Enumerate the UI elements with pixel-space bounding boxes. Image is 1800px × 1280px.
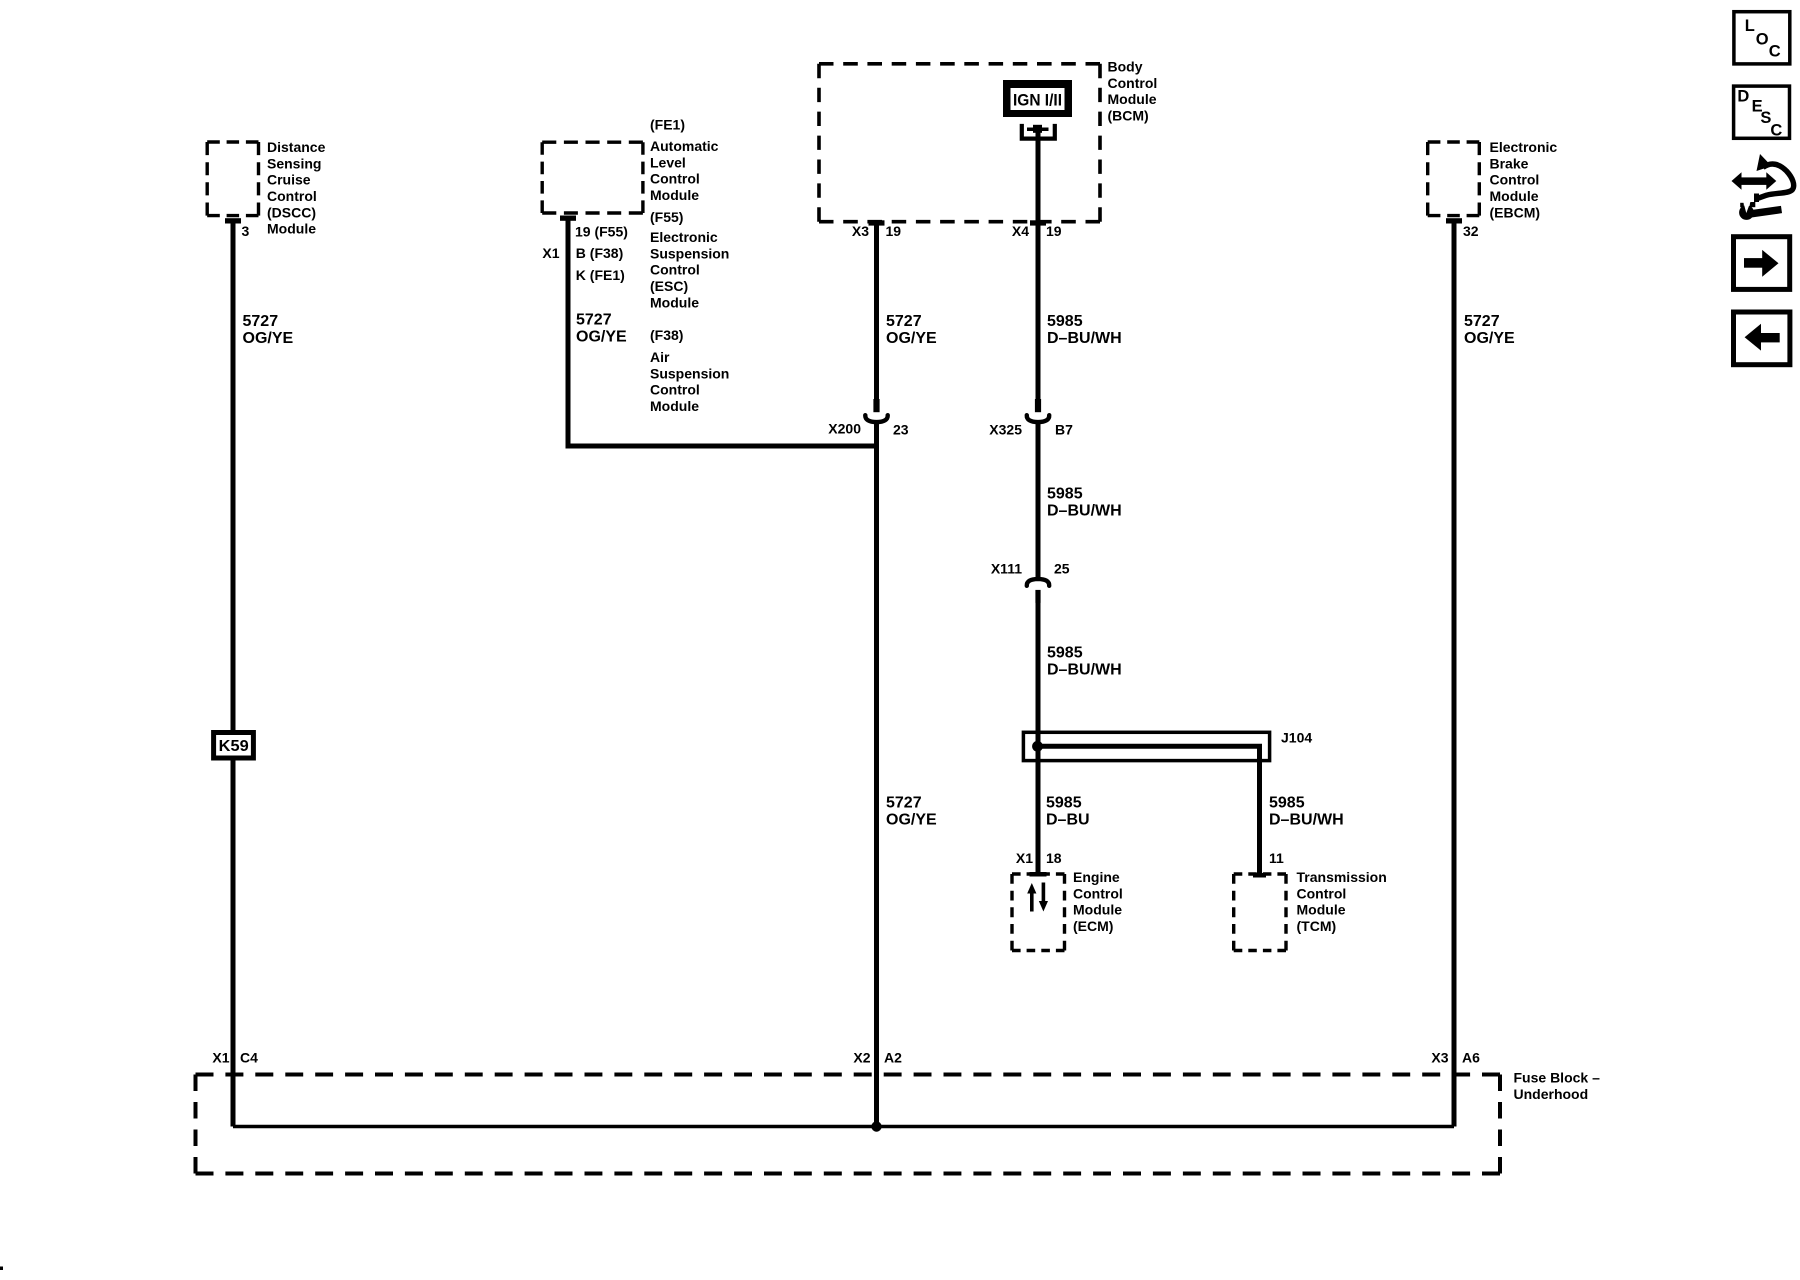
svg-text:X111: X111: [991, 561, 1022, 577]
svg-text:D–BU: D–BU: [1046, 811, 1090, 828]
svg-text:D: D: [1737, 88, 1749, 106]
svg-text:11: 11: [1269, 850, 1284, 866]
svg-text:(BCM): (BCM): [1108, 108, 1149, 124]
svg-text:B7: B7: [1055, 422, 1073, 438]
svg-text:Automatic: Automatic: [650, 138, 719, 154]
svg-text:OG/YE: OG/YE: [886, 330, 937, 347]
svg-text:32: 32: [1463, 223, 1479, 239]
svg-text:19 (F55): 19 (F55): [575, 224, 628, 240]
svg-text:Module: Module: [650, 187, 699, 203]
svg-text:5985: 5985: [1047, 645, 1083, 662]
svg-text:Level: Level: [650, 154, 686, 170]
svg-text:18: 18: [1046, 850, 1062, 866]
svg-text:Control: Control: [267, 188, 317, 204]
svg-text:K (FE1): K (FE1): [576, 267, 625, 283]
svg-text:OG/YE: OG/YE: [886, 811, 937, 828]
svg-text:Module: Module: [1073, 902, 1122, 918]
svg-text:Module: Module: [1490, 188, 1539, 204]
svg-text:Module: Module: [650, 398, 699, 414]
svg-text:OG/YE: OG/YE: [1464, 330, 1515, 347]
svg-text:X325: X325: [989, 422, 1022, 438]
svg-text:Underhood: Underhood: [1514, 1086, 1589, 1102]
svg-text:X1: X1: [542, 245, 559, 261]
svg-text:A6: A6: [1462, 1050, 1480, 1066]
svg-text:D–BU/WH: D–BU/WH: [1047, 502, 1122, 519]
svg-text:Cruise: Cruise: [267, 172, 311, 188]
svg-text:Engine: Engine: [1073, 869, 1120, 885]
svg-text:5727: 5727: [576, 312, 612, 329]
svg-text:23: 23: [893, 422, 909, 438]
svg-text:5985: 5985: [1047, 486, 1083, 503]
svg-text:Brake: Brake: [1490, 155, 1529, 171]
svg-text:K59: K59: [219, 738, 249, 755]
svg-text:5985: 5985: [1046, 795, 1082, 812]
svg-text:C4: C4: [240, 1050, 258, 1066]
svg-text:(ECM): (ECM): [1073, 918, 1113, 934]
svg-text:X1: X1: [212, 1050, 229, 1066]
svg-text:5727: 5727: [886, 795, 922, 812]
svg-text:(TCM): (TCM): [1297, 918, 1337, 934]
svg-text:Suspension: Suspension: [650, 365, 729, 381]
svg-text:25: 25: [1054, 561, 1070, 577]
svg-text:X3: X3: [1431, 1050, 1448, 1066]
svg-text:L: L: [1745, 17, 1755, 35]
svg-text:C: C: [1769, 43, 1781, 61]
svg-text:Body: Body: [1108, 59, 1143, 75]
svg-text:Module: Module: [267, 221, 316, 237]
svg-text:D–BU/WH: D–BU/WH: [1047, 661, 1122, 678]
svg-text:C: C: [1770, 121, 1782, 139]
svg-text:5985: 5985: [1269, 795, 1305, 812]
svg-text:X200: X200: [828, 421, 861, 437]
svg-text:Transmission: Transmission: [1297, 869, 1387, 885]
svg-text:X3: X3: [852, 223, 869, 239]
svg-text:B (F38): B (F38): [576, 245, 623, 261]
svg-text:X2: X2: [853, 1050, 870, 1066]
svg-text:Module: Module: [1297, 902, 1346, 918]
svg-text:Electronic: Electronic: [1490, 139, 1558, 155]
svg-text:Suspension: Suspension: [650, 245, 729, 261]
svg-text:Control: Control: [650, 262, 700, 278]
svg-text:Distance: Distance: [267, 139, 326, 155]
svg-text:19: 19: [1046, 223, 1062, 239]
svg-text:5985: 5985: [1047, 313, 1083, 330]
svg-text:(F55): (F55): [650, 209, 683, 225]
svg-text:Sensing: Sensing: [267, 155, 321, 171]
svg-text:(F38): (F38): [650, 327, 683, 343]
svg-text:Control: Control: [1297, 885, 1347, 901]
svg-text:(FE1): (FE1): [650, 116, 685, 132]
svg-text:Fuse Block –: Fuse Block –: [1514, 1070, 1601, 1086]
svg-text:A2: A2: [884, 1050, 902, 1066]
svg-text:19: 19: [886, 223, 902, 239]
svg-text:Electronic: Electronic: [650, 229, 718, 245]
svg-text:D–BU/WH: D–BU/WH: [1269, 811, 1344, 828]
svg-text:X4: X4: [1012, 223, 1029, 239]
svg-text:Control: Control: [1108, 75, 1158, 91]
svg-text:O: O: [1756, 30, 1769, 48]
svg-text:3: 3: [242, 223, 250, 239]
svg-text:D–BU/WH: D–BU/WH: [1047, 330, 1122, 347]
svg-text:IGN I/II: IGN I/II: [1013, 91, 1062, 110]
svg-text:Module: Module: [1108, 91, 1157, 107]
svg-text:OG/YE: OG/YE: [576, 328, 627, 345]
svg-text:(DSCC): (DSCC): [267, 204, 316, 220]
svg-text:5727: 5727: [1464, 313, 1500, 330]
svg-text:Air: Air: [650, 349, 670, 365]
svg-text:Control: Control: [650, 382, 700, 398]
svg-text:(ESC): (ESC): [650, 278, 688, 294]
svg-text:Module: Module: [650, 294, 699, 310]
svg-text:5727: 5727: [243, 313, 279, 330]
svg-text:Control: Control: [650, 171, 700, 187]
svg-text:Control: Control: [1073, 885, 1123, 901]
svg-text:Control: Control: [1490, 172, 1540, 188]
svg-text:J104: J104: [1281, 730, 1312, 746]
svg-text:(EBCM): (EBCM): [1490, 204, 1541, 220]
svg-text:OG/YE: OG/YE: [243, 330, 294, 347]
svg-text:5727: 5727: [886, 313, 922, 330]
svg-text:X1: X1: [1016, 850, 1033, 866]
